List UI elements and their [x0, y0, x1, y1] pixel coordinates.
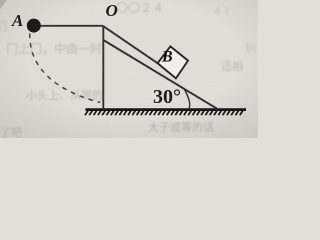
vignette — [0, 0, 258, 138]
svg-text:A: A — [11, 11, 23, 30]
dashed swing arc — [30, 34, 101, 103]
svg-text:别: 别 — [245, 42, 256, 55]
svg-text:30°: 30° — [153, 86, 181, 108]
incline — [103, 40, 218, 109]
ground hatching — [85, 111, 243, 116]
svg-text:〇〇２４: 〇〇２４ — [116, 1, 164, 15]
svg-text:大于或等的话: 大于或等的话 — [148, 120, 214, 134]
svg-text:４７: ４７ — [212, 7, 232, 18]
svg-text:O: O — [106, 1, 118, 20]
svg-text:B: B — [161, 49, 173, 66]
pendulum ball — [27, 19, 41, 33]
corner mark top-left — [0, 0, 7, 9]
block B — [158, 46, 188, 78]
string from O to block — [103, 26, 157, 63]
angle arc 30deg — [184, 88, 190, 109]
svg-text:了吧: 了吧 — [0, 126, 22, 138]
vertical pole — [102, 26, 104, 110]
svg-text:们: 们 — [0, 19, 7, 33]
horizontal arm — [34, 25, 103, 27]
ground — [86, 108, 247, 111]
paper background — [0, 0, 258, 138]
svg-text:门上门，中曲一时: 门上门，中曲一时 — [6, 41, 102, 56]
paper grain — [0, 0, 258, 138]
svg-text:迅相: 迅相 — [221, 60, 243, 73]
